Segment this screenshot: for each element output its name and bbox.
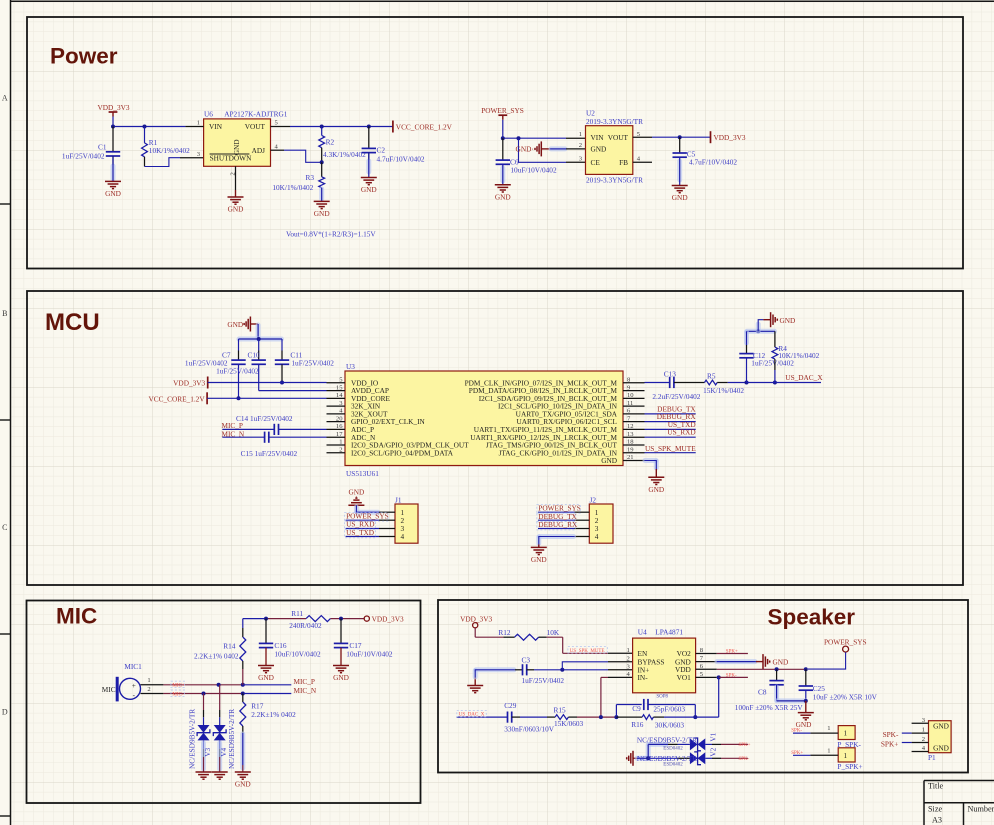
svg-text:GND: GND	[105, 189, 121, 198]
svg-text:+: +	[132, 682, 136, 690]
junction IN- drop	[599, 715, 603, 719]
svg-text:GND: GND	[933, 744, 949, 753]
U3 right pin 11 I2C1_SCL/GPIO_10/I2S_IN_DATA_IN	[623, 405, 645, 407]
svg-text:17: 17	[336, 431, 343, 438]
capacitor C2	[368, 127, 370, 149]
svg-text:1uF/25V/0402: 1uF/25V/0402	[216, 366, 259, 375]
feedback loop right leg	[694, 705, 696, 718]
resistor R11	[305, 618, 307, 620]
svg-text:1uF/25V/0402: 1uF/25V/0402	[62, 151, 105, 160]
junction V4 on MIC_P	[217, 683, 221, 687]
pin 3 stub of U6	[180, 157, 204, 159]
wire gnd to J1 pin1	[354, 507, 359, 512]
ground at V4	[212, 771, 228, 773]
sheet border	[10, 0, 12, 825]
svg-text:Speaker: Speaker	[768, 605, 856, 630]
TVS diode V4	[219, 685, 221, 710]
J2 pin 1 stub	[575, 511, 590, 513]
sideways ground right MCU	[763, 319, 770, 321]
ground GND at C17	[333, 665, 349, 667]
svg-text:IN-: IN-	[638, 673, 649, 682]
wire VDD_3V3 to VIN	[113, 126, 185, 128]
svg-text:SPK+: SPK+	[881, 740, 899, 749]
V4 lower wire	[219, 740, 221, 748]
svg-text:10K/1%/0402: 10K/1%/0402	[778, 351, 819, 360]
wire R1 to SHUTDOWN	[145, 158, 181, 167]
svg-text:10K/1%/0402: 10K/1%/0402	[272, 183, 313, 192]
junction C25	[804, 667, 808, 671]
zone tick bottom	[0, 815, 11, 817]
J1 pin 2 stub	[379, 519, 395, 521]
U3 left pin 2 I2C0_SCL/GPIO_04/PDM_DATA	[327, 452, 346, 454]
resistor R4	[774, 331, 776, 347]
svg-text:MIC: MIC	[56, 604, 97, 629]
svg-text:ESD0402: ESD0402	[663, 763, 683, 768]
MCU section box	[27, 291, 963, 585]
net label US_SPK_MUTE wire	[645, 452, 696, 454]
U2 pin 3 stub	[566, 161, 586, 163]
svg-text:VDD_3V3: VDD_3V3	[97, 103, 129, 112]
U4 pin 4 stub and IN- wire	[608, 676, 633, 678]
P1 pin 4 stub	[912, 751, 929, 753]
MIC1 pin 1 stub	[141, 684, 164, 686]
svg-text:GND: GND	[361, 185, 377, 194]
svg-text:C1: C1	[98, 143, 107, 152]
wire gnd to C3	[476, 667, 514, 672]
svg-text:VDD_3V3: VDD_3V3	[714, 133, 746, 142]
resistor R3	[321, 162, 323, 177]
junction C16	[264, 617, 268, 621]
svg-text:15K/1%/0402: 15K/1%/0402	[703, 386, 744, 395]
wire VDD_3V3 row	[208, 382, 327, 384]
svg-text:SPK-: SPK-	[883, 730, 899, 739]
U6 pin 1 stub	[185, 126, 203, 128]
feedback loop left leg	[615, 705, 617, 718]
svg-text:C8: C8	[758, 687, 767, 696]
P_SPK- pin stub	[810, 732, 838, 734]
junction R4 bottom	[773, 381, 777, 385]
svg-text:NC/ESD9B5V-2/TR: NC/ESD9B5V-2/TR	[637, 736, 697, 745]
svg-text:P1: P1	[928, 753, 936, 762]
svg-text:11: 11	[627, 400, 633, 407]
svg-text:GND: GND	[258, 673, 274, 682]
svg-text:10: 10	[627, 392, 634, 399]
svg-text:14: 14	[336, 392, 343, 399]
U4 pin 2 stub	[608, 661, 633, 663]
svg-text:MCU: MCU	[45, 309, 100, 336]
svg-text:U3: U3	[346, 362, 355, 371]
sideways ground for V1 V2	[632, 751, 634, 766]
svg-text:1: 1	[147, 677, 150, 684]
svg-text:J2: J2	[590, 495, 597, 504]
ground GND at C16	[258, 665, 274, 667]
junction V1V2 gnd	[646, 756, 650, 760]
svg-text:2: 2	[922, 736, 925, 743]
capacitor C16	[265, 619, 267, 644]
svg-text:ESD0402: ESD0402	[663, 747, 683, 752]
junction at C6	[501, 136, 505, 140]
svg-text:U4: U4	[638, 628, 647, 637]
wire to MIC_N label	[243, 693, 291, 695]
svg-text:10uF/10V/0402: 10uF/10V/0402	[346, 649, 393, 658]
svg-text:R16: R16	[631, 720, 644, 729]
U2 pin 5 stub	[633, 136, 652, 138]
capacitor C29	[507, 712, 509, 723]
svg-text:GND: GND	[531, 555, 547, 564]
resistor R15	[547, 716, 555, 718]
J2 pin 2 stub	[575, 519, 590, 521]
U3 left pin 17 ADC_N	[327, 436, 346, 438]
svg-text:POWER_SYS: POWER_SYS	[481, 106, 524, 115]
svg-text:1: 1	[827, 725, 830, 732]
junction C8	[775, 667, 779, 671]
svg-text:Number: Number	[968, 805, 994, 814]
zone tick A/B	[0, 203, 11, 205]
wire VOUT to VDD_3V3	[652, 136, 711, 138]
ground GND at U3 pin 21	[648, 476, 664, 478]
capacitor C6	[502, 138, 504, 160]
svg-text:GND: GND	[648, 485, 664, 494]
svg-text:1: 1	[339, 439, 342, 446]
svg-text:V2: V2	[709, 747, 718, 756]
svg-text:VOUT: VOUT	[245, 122, 266, 131]
junction at R2	[320, 125, 324, 129]
svg-text:SHUTDOWN: SHUTDOWN	[210, 154, 252, 163]
svg-text:C29: C29	[504, 701, 517, 710]
wire MIC- net	[163, 693, 242, 695]
zone tick C/D	[0, 633, 11, 635]
wire AVDD_CAP	[259, 390, 327, 392]
svg-text:SPK-: SPK-	[791, 729, 802, 734]
svg-text:J1: J1	[395, 495, 402, 504]
capacitor C15	[264, 432, 266, 443]
junction at R1	[143, 125, 147, 129]
svg-text:30K/0603: 30K/0603	[655, 720, 685, 729]
svg-text:GND: GND	[672, 193, 688, 202]
U4 pin 6 VDD wire	[696, 668, 717, 670]
J1 US_TXD wire	[346, 536, 379, 538]
svg-text:1: 1	[197, 120, 200, 127]
svg-text:19: 19	[627, 446, 634, 453]
junction ADJ/R2/R3	[320, 160, 324, 164]
svg-text:C9: C9	[632, 704, 641, 713]
svg-text:330nF/0603/10V: 330nF/0603/10V	[504, 724, 555, 733]
capacitor C11	[281, 339, 283, 351]
capacitor C25	[805, 669, 807, 686]
svg-text:2: 2	[627, 655, 630, 662]
svg-text:100nF ±20% X5R 25V: 100nF ±20% X5R 25V	[735, 703, 804, 712]
decoupling gnd bus wire	[239, 337, 282, 342]
svg-text:V3: V3	[203, 748, 212, 757]
svg-text:C10: C10	[248, 350, 261, 359]
gnd tie wire C8-C25	[777, 698, 805, 703]
svg-text:Size: Size	[928, 805, 942, 814]
wire to MIC_P label	[243, 684, 291, 686]
svg-text:GND: GND	[601, 456, 617, 465]
svg-text:4: 4	[595, 532, 599, 541]
J1 US_RXD wire	[346, 528, 379, 530]
zone tick B/C	[0, 419, 11, 421]
svg-text:A: A	[2, 94, 8, 103]
title block	[924, 780, 994, 782]
svg-text:C15 1uF/25V/0402: C15 1uF/25V/0402	[241, 449, 298, 458]
svg-text:Vout=0.8V*(1+R2/R3)=1.15V: Vout=0.8V*(1+R2/R3)=1.15V	[286, 229, 376, 238]
svg-text:2: 2	[339, 446, 342, 453]
MIC section box	[27, 601, 421, 804]
net label US_RXD wire	[645, 436, 696, 438]
TVS diode V1	[668, 743, 678, 745]
svg-text:15K/0603: 15K/0603	[554, 719, 584, 728]
regulator U6 body	[204, 119, 271, 166]
junction gnd tie	[804, 699, 808, 703]
svg-text:R14: R14	[223, 641, 236, 650]
junction at C5	[678, 135, 682, 139]
capacitor C1	[112, 127, 114, 152]
svg-text:A3: A3	[932, 816, 942, 825]
svg-text:MIC_P: MIC_P	[294, 677, 316, 686]
junction C7/VCC_CORE	[237, 396, 241, 400]
U4 pin 1 stub	[608, 652, 633, 654]
junction C12 bottom	[745, 381, 749, 385]
svg-text:VDD_3V3: VDD_3V3	[173, 379, 205, 388]
svg-text:US_DAC_X: US_DAC_X	[785, 373, 823, 382]
svg-text:10K/1%/0402: 10K/1%/0402	[149, 146, 190, 155]
connector P1 body	[929, 721, 952, 753]
svg-text:1: 1	[579, 131, 582, 138]
J2 pin 4 stub	[575, 536, 590, 538]
junction gnd bus	[756, 329, 760, 333]
svg-text:R2: R2	[326, 138, 335, 147]
svg-text:GND: GND	[495, 193, 511, 202]
svg-text:20: 20	[336, 415, 343, 422]
svg-text:C13: C13	[664, 369, 677, 378]
microphone MIC1 symbol	[120, 678, 141, 699]
svg-text:C: C	[2, 523, 7, 532]
svg-text:1: 1	[827, 747, 830, 754]
power port VCC_CORE_1.2V	[392, 121, 394, 133]
ground GND below J2	[531, 546, 547, 548]
capacitor C14	[273, 424, 275, 435]
J1 pin 4 stub	[379, 536, 395, 538]
ground GND at C5	[672, 185, 688, 187]
svg-text:I2C0_SCL/GPIO_04/PDM_DATA: I2C0_SCL/GPIO_04/PDM_DATA	[351, 448, 454, 457]
wire gnd to bus	[256, 325, 261, 338]
wire POWER_SYS rail	[503, 137, 566, 139]
svg-text:AP2127K-ADJTRG1: AP2127K-ADJTRG1	[224, 109, 288, 118]
svg-text:CE: CE	[591, 158, 601, 167]
connector P_SPK+ body	[838, 748, 855, 762]
svg-text:V1: V1	[709, 732, 718, 741]
U6 pin 2 ground pin	[235, 166, 237, 190]
junction R17 on MIC_N	[241, 692, 245, 696]
svg-text:US_RXD: US_RXD	[667, 428, 695, 437]
ground GND at C25	[798, 712, 814, 714]
J2 DEBUG_RX wire	[538, 528, 575, 530]
svg-text:Title: Title	[928, 782, 944, 791]
U3 right pin 7 UART0_RX/GPIO_06/I2C1_SCL	[623, 421, 645, 423]
svg-text:1: 1	[627, 647, 630, 654]
U3 left pin 20 GPIO_02/EXT_CLK_IN	[327, 421, 346, 423]
svg-text:SPK-: SPK-	[726, 673, 737, 678]
ground GND at C1	[112, 180, 114, 182]
MCU U3 body	[345, 371, 623, 466]
capacitor C17	[340, 619, 342, 644]
amplifier U4 body	[633, 638, 696, 693]
capacitor C13 on DAC path	[645, 382, 670, 384]
svg-text:C2: C2	[377, 146, 386, 155]
svg-text:2.2K±1% 0402: 2.2K±1% 0402	[194, 651, 239, 660]
svg-text:GND: GND	[348, 487, 364, 496]
svg-text:U6: U6	[204, 109, 213, 118]
svg-text:ADJ: ADJ	[252, 146, 266, 155]
resistor R2	[321, 127, 323, 136]
svg-text:4.7uF/10V/0402: 4.7uF/10V/0402	[377, 155, 425, 164]
wire up to sideways gnd	[756, 324, 761, 331]
J2 DEBUG_TX wire	[538, 519, 575, 521]
regulator U2 body	[586, 126, 633, 175]
svg-text:VOUT: VOUT	[608, 133, 629, 142]
svg-text:R12: R12	[498, 628, 511, 637]
svg-text:GND: GND	[314, 209, 330, 218]
resistor R1	[144, 127, 146, 143]
gnd wire to diodes	[637, 756, 648, 761]
P1 pin 3 stub	[912, 722, 929, 724]
svg-text:4.7uF/10V/0402: 4.7uF/10V/0402	[689, 158, 737, 167]
junction R14 on MIC_P	[241, 683, 245, 687]
wire ADJ	[271, 149, 285, 151]
U2 pin 4 stub	[633, 161, 652, 163]
svg-text:VDD_3V3: VDD_3V3	[372, 615, 404, 624]
wire VCC_CORE row	[207, 397, 326, 399]
ground GND at R17	[235, 771, 251, 773]
P_SPK- wire	[793, 732, 810, 734]
svg-text:1uF/25V/0402: 1uF/25V/0402	[291, 359, 334, 368]
ground GND at C2	[361, 177, 377, 179]
net label DEBUG_RX wire	[645, 421, 696, 423]
U3 right pin 6 UART0_TX/GPIO_05/I2C1_SDA	[623, 413, 645, 415]
U3 right pin 8 PDM_CLK_IN/GPIO_07/I2S_IN_MCLK_OUT_M	[623, 382, 645, 384]
resistor R17	[242, 694, 244, 703]
P_SPK+ pin stub	[810, 754, 838, 756]
U3 right pin 18 JTAG_TMS/GPIO_00/I2S_IN_BCLK_OUT	[623, 444, 645, 446]
U3 right pin 10 I2C1_SDA/GPIO_09/I2S_IN_BCLK_OUT_M	[623, 397, 645, 399]
Power section box	[27, 17, 963, 269]
svg-text:POWER_SYS: POWER_SYS	[824, 637, 867, 646]
junction at C2	[367, 125, 371, 129]
svg-text:VO1: VO1	[677, 673, 692, 682]
U3 left pin 3 32K_XIN	[327, 405, 346, 407]
resistor R5	[674, 382, 705, 384]
svg-text:VCC_CORE_1.2V: VCC_CORE_1.2V	[148, 394, 205, 403]
U3 left pin 14 VDD_CORE	[327, 397, 346, 399]
wire VOUT net	[271, 126, 291, 128]
svg-text:R3: R3	[305, 173, 314, 182]
svg-text:MIC-: MIC-	[172, 692, 183, 697]
svg-text:GND: GND	[591, 145, 607, 154]
U2 pin 1 stub	[566, 137, 586, 139]
junction V3 on MIC_N	[202, 692, 206, 696]
junction BYPASS/IN+	[560, 668, 564, 672]
junction RC loop left	[614, 715, 618, 719]
svg-text:15: 15	[336, 384, 343, 391]
svg-text:JTAG_CK/GPIO_01/I2S_IN_DATA_IN: JTAG_CK/GPIO_01/I2S_IN_DATA_IN	[499, 448, 618, 457]
svg-text:B: B	[2, 309, 7, 318]
svg-text:1: 1	[922, 727, 925, 734]
svg-text:SPK+: SPK+	[726, 649, 738, 654]
svg-text:LPA4871: LPA4871	[655, 628, 683, 637]
MIC1 pin 2 stub	[141, 693, 164, 695]
svg-text:GND: GND	[228, 205, 244, 214]
sideways ground at pin7	[756, 661, 763, 663]
J2 POWER_SYS wire	[538, 511, 575, 513]
U2 pin 2 stub	[566, 148, 586, 150]
connector J2 body	[589, 504, 613, 543]
svg-text:SPK-: SPK-	[739, 757, 750, 762]
capacitor C7	[238, 339, 240, 351]
J1 pin 3 stub	[379, 528, 395, 530]
power port VDD_3V3 right	[710, 131, 712, 143]
J2 pin 3 stub	[575, 528, 590, 530]
wire MIC+ net	[163, 684, 242, 686]
J1 POWER_SYS wire	[346, 519, 379, 521]
svg-text:12: 12	[627, 423, 634, 430]
junction VO1	[717, 675, 721, 679]
P1 SPK- wire	[902, 732, 912, 734]
svg-text:25pF/0603: 25pF/0603	[653, 704, 685, 713]
power port VDD_3V3 MIC	[364, 616, 369, 621]
U3 left pin 5 VDD_IO	[327, 382, 346, 384]
svg-text:R17: R17	[251, 701, 264, 710]
J1 pin 1 stub	[379, 511, 395, 513]
resistor R12	[475, 636, 503, 638]
svg-text:SPK+: SPK+	[791, 751, 803, 756]
capacitor C12	[744, 332, 749, 343]
svg-text:VIN: VIN	[591, 133, 605, 142]
capacitor C9	[616, 704, 641, 706]
wire C14 to ADC_P	[279, 428, 327, 430]
svg-text:FB: FB	[619, 158, 628, 167]
svg-text:R11: R11	[291, 609, 303, 618]
svg-text:US_SPK_MUTE: US_SPK_MUTE	[645, 444, 696, 453]
svg-text:SOP8: SOP8	[656, 695, 668, 700]
P1 SPK+ wire	[902, 742, 912, 744]
svg-text:R15: R15	[554, 705, 567, 714]
svg-text:2.2K±1% 0402: 2.2K±1% 0402	[251, 710, 296, 719]
svg-text:10uF/10V/0402: 10uF/10V/0402	[510, 165, 557, 174]
svg-text:1uF/25V/0402: 1uF/25V/0402	[522, 676, 565, 685]
svg-text:D: D	[2, 708, 8, 717]
svg-text:GND: GND	[773, 658, 789, 667]
svg-text:10uF/10V/0402: 10uF/10V/0402	[274, 649, 321, 658]
filter gnd bus top right	[747, 329, 775, 334]
U3 right pin 13 UART1_RX/GPIO_12/I2S_IN_LRCLK_OUT_M	[623, 436, 645, 438]
sideways ground at C3	[467, 685, 483, 687]
wire mute net	[547, 636, 563, 638]
svg-text:GND: GND	[933, 722, 949, 731]
TVS diode V2	[648, 757, 677, 759]
ground GND at C6	[495, 184, 511, 186]
connector J1 body	[395, 504, 418, 543]
svg-text:2: 2	[147, 686, 150, 693]
junction at CE drop	[517, 136, 521, 140]
top rail wire	[243, 618, 266, 620]
resistor R16	[616, 716, 642, 718]
V3 lower wire	[203, 740, 205, 748]
svg-text:2: 2	[579, 142, 582, 149]
P1 pin 1 stub	[912, 732, 929, 734]
resistor R14	[242, 619, 244, 628]
svg-text:4.3K/1%/0402: 4.3K/1%/0402	[323, 150, 366, 159]
